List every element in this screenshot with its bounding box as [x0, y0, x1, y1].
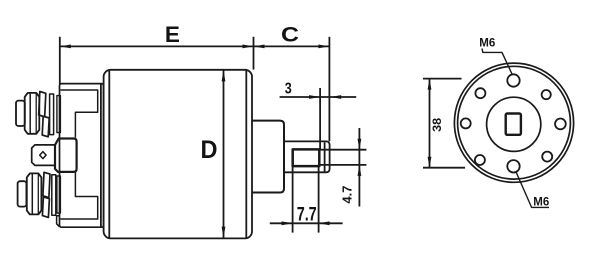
- arrow D top: [222, 70, 226, 81]
- spade terminal base: [55, 139, 77, 172]
- ext line left: [59, 37, 61, 84]
- dim 38 ext bottom: [423, 167, 465, 169]
- svg-text:7.7: 7.7: [297, 205, 317, 226]
- flange outer ring inner circle: [458, 66, 571, 179]
- flange outer circle: [454, 63, 573, 182]
- spade terminal blade: [32, 145, 55, 166]
- terminal bracket: [60, 90, 97, 219]
- arrow E left: [60, 45, 71, 49]
- bottom terminal bolt tip: [18, 181, 27, 206]
- hole top-right: [542, 90, 551, 99]
- hole top M6: [507, 74, 519, 86]
- svg-text:C: C: [281, 24, 299, 47]
- dim 38 ext top: [423, 78, 462, 80]
- mounting boss: [252, 121, 284, 193]
- hole right: [555, 119, 566, 130]
- arrow 38 bottom: [428, 157, 432, 168]
- front cap: [60, 84, 104, 228]
- svg-text:D: D: [201, 136, 218, 164]
- dim 4.7 ext top: [320, 149, 367, 151]
- arrow C left: [254, 45, 265, 49]
- hole bottom M6: [507, 160, 519, 172]
- dim 4.7 ext bottom: [320, 164, 367, 166]
- svg-text:38: 38: [432, 117, 444, 132]
- svg-text:M6: M6: [533, 197, 549, 209]
- arrow 7.7 left: [282, 221, 293, 225]
- top terminal nut: [25, 93, 40, 134]
- dim 7.7 line: [270, 222, 343, 224]
- rod slot: [293, 149, 320, 166]
- hole top-left: [475, 88, 485, 98]
- hole left: [461, 118, 471, 128]
- svg-text:3: 3: [285, 80, 292, 97]
- dim 7.7 ext left: [292, 166, 294, 232]
- arrow 38 top: [428, 79, 432, 90]
- dim 4.7 line: [358, 128, 360, 207]
- rod end line: [324, 142, 326, 171]
- dim 3 line: [280, 96, 357, 98]
- plunger rod: [284, 141, 330, 172]
- cap bottom-left foot: [57, 216, 60, 227]
- top terminal bolt tip: [16, 101, 25, 126]
- svg-text:4.7: 4.7: [339, 186, 354, 204]
- arrow C right: [318, 45, 329, 49]
- body right seam: [245, 70, 247, 238]
- flange center rectangular hole: [506, 114, 521, 135]
- cap inner right line: [100, 84, 102, 226]
- leader M6 bottom: [516, 172, 549, 208]
- ext line right: [328, 37, 330, 141]
- bottom terminal insulator strip: [57, 176, 61, 213]
- svg-text:M6: M6: [479, 38, 495, 50]
- top terminal washer plate: [50, 94, 54, 135]
- arrow 3 right: [330, 95, 341, 99]
- bottom terminal washer plate: [52, 175, 56, 216]
- arrow 3 left: [309, 95, 320, 99]
- solenoid body: [104, 70, 252, 239]
- dim 38 line: [429, 79, 431, 168]
- leader M6 top: [482, 49, 512, 75]
- dim D line: [223, 70, 225, 237]
- dim 7.7 ext right: [318, 166, 320, 232]
- dim 3 ext: [319, 88, 321, 150]
- svg-text:E: E: [165, 22, 180, 47]
- arrow D bottom: [222, 227, 226, 238]
- bottom terminal spring washer: [43, 172, 50, 197]
- flange inner circle: [487, 97, 541, 151]
- arrow E right: [243, 45, 254, 49]
- top terminal insulator strip: [57, 96, 61, 133]
- spade blade diamond hole: [40, 152, 46, 159]
- ext line middle: [253, 37, 255, 70]
- arrow 4.7 top: [358, 139, 362, 150]
- hole bottom-right: [542, 152, 552, 162]
- hole bottom-left: [475, 155, 485, 165]
- bottom terminal nut: [27, 173, 42, 214]
- arrow 4.7 bottom: [358, 165, 362, 176]
- dim E-C line: [60, 45, 330, 47]
- body left seam: [108, 71, 110, 238]
- top terminal spring washer: [39, 92, 46, 117]
- arrow 7.7 right: [319, 221, 330, 225]
